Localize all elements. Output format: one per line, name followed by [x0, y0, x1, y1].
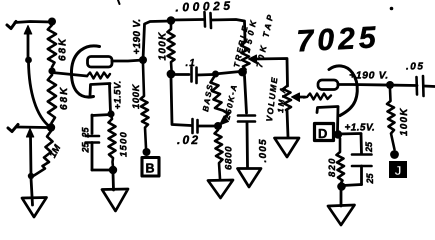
junction dot jack1 switch	[25, 57, 32, 64]
ground (volume)	[275, 138, 300, 157]
wire plate1 to top rail	[143, 21, 171, 60]
node .1/.02 branch dot	[167, 70, 176, 79]
svg-text:68K: 68K	[58, 37, 69, 61]
svg-text:+190 V.: +190 V.	[132, 19, 143, 55]
capacitor C1 plates	[86, 136, 100, 143]
wire cathode RC bottom rail	[92, 169, 113, 172]
node jack2 tip dot	[47, 123, 55, 131]
triode V1A plate box	[88, 57, 113, 68]
node plate2 dot	[386, 81, 394, 89]
svg-text:D: D	[318, 126, 327, 141]
svg-text:1500: 1500	[119, 131, 130, 157]
jack J1 input 1 tip contact	[7, 22, 16, 29]
wire volume wiper to grid2	[298, 96, 305, 99]
wire C7 output lead	[424, 85, 435, 88]
jack J2 switch arrow	[26, 129, 33, 138]
capacitor C7 .05 plates	[417, 76, 424, 96]
node D box terminal	[315, 124, 334, 141]
wire jack1 tip to node A	[15, 22, 52, 23]
wire volume bottom to ground	[287, 110, 288, 137]
capacitor C2 .00025 plates	[205, 12, 212, 28]
resistor R7 6800	[215, 130, 223, 179]
wire C3 to bass node	[197, 73, 213, 76]
bass wiper arrow	[223, 113, 229, 120]
svg-text:.00025: .00025	[175, 0, 234, 15]
wire cathode RC2 bottom rail	[343, 185, 362, 186]
wire node to C3	[175, 73, 189, 76]
svg-text:25: 25	[364, 141, 374, 153]
svg-text:.1: .1	[186, 58, 196, 69]
wire to ground	[340, 189, 343, 206]
jack J1 switch arrow	[24, 26, 32, 35]
wire to ground	[31, 178, 33, 205]
wire plate1 lead	[112, 60, 143, 61]
triode V1B cathode	[317, 107, 338, 113]
junction dot jack2 switch	[28, 173, 34, 179]
node A dot (jack1 tip / R1 top)	[48, 18, 56, 26]
potentiometer treble 250K zigzag	[241, 42, 250, 70]
node cathode1 dot	[107, 110, 114, 117]
resistor R2 68K	[48, 75, 56, 123]
wire cathode RC top rail	[92, 115, 111, 116]
wire C5 to ground	[246, 122, 249, 167]
triode V1B plate box	[318, 80, 338, 90]
node cathode2 dot	[334, 130, 342, 138]
svg-text:.02: .02	[177, 133, 200, 147]
svg-text:J: J	[395, 164, 402, 178]
node J box terminal	[389, 161, 407, 178]
svg-text:+190 V.: +190 V.	[349, 70, 389, 82]
ground (input jacks)	[22, 198, 47, 218]
wire curved jack1 switch to jack2 tip node	[29, 62, 51, 127]
potentiometer volume 1M-A zigzag	[283, 86, 291, 110]
jack J2 input 2 tip contact	[8, 125, 18, 132]
ground (.005)	[238, 169, 262, 188]
svg-text:B: B	[146, 162, 155, 176]
wire node to C4 .02	[171, 78, 191, 126]
wire grid node to tube grid	[52, 73, 87, 77]
svg-text:250K-A: 250K-A	[222, 83, 239, 122]
node top-rail dot	[167, 16, 176, 25]
svg-text:25: 25	[81, 141, 91, 153]
wire C2 to treble pot top	[211, 20, 245, 43]
capacitor C6 25/25 top lead	[360, 134, 363, 154]
ground (cathode 2)	[328, 205, 355, 225]
triode V1B envelope arc	[329, 66, 357, 116]
wire cathode1 lead	[110, 84, 111, 113]
node treble bottom dot	[238, 68, 247, 77]
wire bass node to treble bottom	[215, 72, 240, 75]
node plate1 dot	[139, 56, 147, 64]
wire plate2 rail	[338, 85, 417, 86]
wire C4 to bass bottom node	[198, 125, 214, 128]
triode V1A grid zigzag	[87, 73, 110, 79]
resistor R8 820	[337, 139, 345, 184]
capacitor C1 bottom lead	[91, 143, 94, 171]
svg-text:820: 820	[327, 157, 338, 177]
svg-text:+1.5V.: +1.5V.	[113, 80, 124, 109]
resistor R6 100K slope	[168, 24, 175, 70]
svg-text:25: 25	[81, 126, 91, 138]
node bass bottom dot	[214, 122, 222, 130]
resistor R9 100K	[387, 89, 395, 150]
node cathode RC bottom dot	[109, 166, 117, 174]
wire to ground	[112, 173, 115, 190]
capacitor C1 25/25 lead	[91, 115, 94, 134]
node J dot	[390, 150, 399, 159]
triode V1A envelope arc	[71, 46, 99, 97]
svg-text:7025: 7025	[296, 20, 381, 58]
ground (6800)	[208, 180, 233, 198]
resistor R5 100K plate feed	[141, 64, 149, 148]
svg-text:+1.5V.: +1.5V.	[345, 123, 376, 134]
svg-text:100K: 100K	[158, 31, 169, 60]
capacitor C3 .1 plates	[192, 67, 197, 83]
svg-text:6800: 6800	[224, 146, 235, 170]
ground (cathode 1)	[102, 189, 128, 211]
capacitor C5 .005 plates	[238, 116, 255, 122]
resistor R1 68K	[48, 25, 56, 67]
treble wiper arrow	[249, 55, 257, 64]
node RC2 bottom dot	[337, 182, 346, 191]
capacitor C4 .02 plates	[193, 119, 198, 133]
triode V1A cathode	[90, 84, 110, 96]
svg-text:.05: .05	[406, 62, 424, 73]
svg-text:25: 25	[365, 172, 375, 184]
wire treble bottom to C5	[245, 76, 247, 113]
volume wiper arrow	[292, 93, 300, 102]
node B box terminal	[142, 158, 159, 177]
speck top right	[390, 7, 394, 11]
wire cathode2 lead	[336, 107, 339, 131]
resistor R3 1M	[34, 131, 53, 176]
node grid1 dot	[48, 67, 55, 74]
wire treble wiper to volume top	[255, 59, 288, 87]
wire jack2 tip	[17, 126, 47, 129]
svg-text:100K: 100K	[399, 107, 410, 136]
potentiometer bass 250K-A zigzag	[211, 77, 229, 114]
capacitor C6 plates	[352, 155, 372, 167]
node B dot	[143, 148, 151, 156]
svg-text:.005: .005	[258, 138, 269, 162]
svg-text:100K: 100K	[131, 83, 142, 109]
capacitor C6 bottom lead	[360, 166, 363, 185]
svg-text:68K: 68K	[59, 86, 70, 110]
node bass top dot	[212, 71, 219, 78]
speck top middle tick	[118, 0, 120, 4]
triode V1B grid zigzag	[304, 94, 331, 100]
svg-text:BASS: BASS	[201, 83, 215, 113]
wire cathode RC2 top rail	[338, 132, 361, 135]
resistor R4 1500	[109, 114, 116, 167]
wire top rail to C2	[171, 18, 203, 21]
